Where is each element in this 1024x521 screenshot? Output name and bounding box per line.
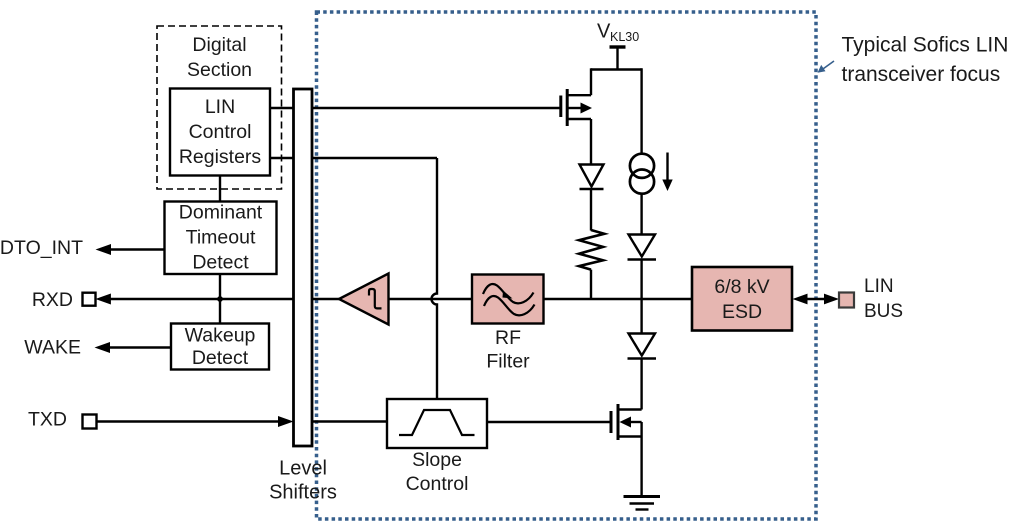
svg-text:DTO_INT: DTO_INT bbox=[0, 237, 83, 259]
svg-text:Level: Level bbox=[279, 458, 327, 480]
svg-text:Shifters: Shifters bbox=[269, 482, 337, 504]
svg-text:ESD: ESD bbox=[722, 301, 762, 323]
svg-text:RF: RF bbox=[495, 327, 521, 349]
svg-text:WAKE: WAKE bbox=[24, 337, 81, 359]
svg-text:KL30: KL30 bbox=[610, 30, 639, 44]
svg-text:Section: Section bbox=[187, 59, 252, 81]
svg-text:transceiver focus: transceiver focus bbox=[842, 63, 1001, 86]
svg-text:LIN: LIN bbox=[205, 96, 235, 118]
svg-text:Detect: Detect bbox=[192, 252, 249, 274]
svg-text:Typical Sofics LIN: Typical Sofics LIN bbox=[842, 33, 1009, 56]
svg-text:6/8 kV: 6/8 kV bbox=[714, 276, 769, 298]
svg-text:Dominant: Dominant bbox=[179, 202, 263, 224]
svg-text:Slope: Slope bbox=[412, 449, 462, 471]
svg-text:Control: Control bbox=[189, 121, 252, 143]
svg-text:Registers: Registers bbox=[179, 146, 262, 168]
svg-text:TXD: TXD bbox=[28, 409, 67, 431]
svg-text:Detect: Detect bbox=[192, 347, 249, 369]
svg-text:RXD: RXD bbox=[32, 289, 73, 311]
svg-text:LIN: LIN bbox=[864, 276, 894, 297]
svg-text:Control: Control bbox=[406, 473, 469, 495]
svg-text:V: V bbox=[597, 21, 611, 43]
svg-text:Filter: Filter bbox=[486, 351, 530, 373]
svg-text:Digital: Digital bbox=[192, 34, 246, 56]
svg-text:BUS: BUS bbox=[864, 301, 903, 322]
svg-text:Wakeup: Wakeup bbox=[185, 325, 256, 347]
svg-text:Timeout: Timeout bbox=[186, 227, 256, 249]
